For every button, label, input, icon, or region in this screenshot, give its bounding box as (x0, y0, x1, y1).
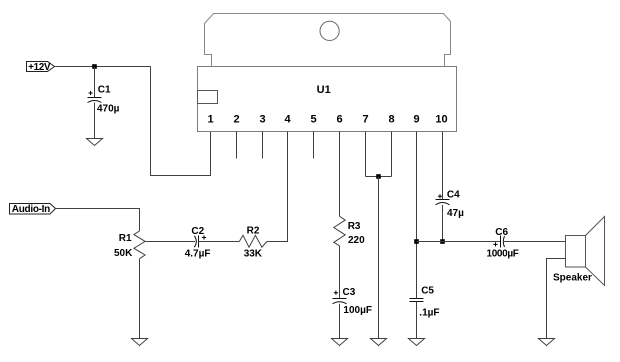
svg-text:4: 4 (284, 114, 291, 126)
wire R3 to C3 (339, 246, 341, 299)
capacitor C2 (185, 226, 211, 260)
wire speaker return (547, 259, 566, 339)
wire C1 top lead (94, 67, 96, 98)
svg-text:Speaker: Speaker (553, 272, 592, 283)
input flag Audio-In (10, 204, 56, 216)
wire pins 7/8 to ground (378, 177, 380, 339)
svg-text:U1: U1 (317, 84, 331, 96)
svg-text:10: 10 (435, 114, 447, 126)
svg-text:5: 5 (310, 114, 316, 126)
IC U1 body (198, 67, 457, 132)
resistor R2 (239, 225, 267, 259)
capacitor C3 (333, 287, 372, 316)
ground (C1) (87, 139, 103, 146)
svg-text:C1: C1 (98, 85, 111, 96)
wire C6 to speaker (504, 241, 566, 243)
svg-text:C2: C2 (191, 226, 204, 237)
svg-text:7: 7 (362, 114, 368, 126)
svg-text:R1: R1 (119, 233, 132, 244)
junction node +12V/C1 (92, 64, 97, 69)
svg-text:33K: 33K (244, 249, 263, 260)
svg-text:R2: R2 (247, 225, 260, 236)
wire +12V rail (55, 66, 151, 68)
capacitor C4 (436, 190, 465, 219)
wire pin 8 (391, 132, 393, 177)
svg-text:+12V: +12V (28, 62, 51, 73)
speaker SP1 (553, 217, 605, 286)
wire C2 to R2 (199, 241, 240, 243)
ground (pins 7/8) (371, 339, 387, 346)
junction node pins 7/8 (376, 174, 381, 179)
svg-text:R3: R3 (348, 221, 361, 232)
junction node C4/output rail (440, 239, 445, 244)
svg-text:1: 1 (207, 114, 213, 126)
wire pin 7 (365, 132, 367, 177)
wire pins 7-8 join (366, 176, 392, 178)
potentiometer R1 (114, 231, 145, 259)
svg-text:C4: C4 (447, 190, 460, 201)
svg-text:.1µF: .1µF (419, 308, 439, 319)
wire output rail (417, 241, 501, 243)
IC U1 tab (205, 14, 451, 67)
ground (R1) (132, 339, 148, 346)
svg-text:3: 3 (259, 114, 265, 126)
wire +12V rail to pin 1 (151, 67, 211, 176)
capacitor C1 (88, 85, 120, 115)
wire Audio-In to R1 (56, 209, 140, 231)
svg-text:Audio-In: Audio-In (12, 204, 50, 215)
svg-text:8: 8 (388, 114, 394, 126)
ground (speaker) (539, 339, 555, 346)
IC U1 mounting hole (320, 21, 339, 40)
wire pin 3 stub (262, 132, 264, 159)
svg-text:220: 220 (348, 235, 365, 246)
wire C3 to ground (339, 304, 341, 338)
wire pin 5 stub (313, 132, 315, 159)
svg-text:50K: 50K (114, 248, 133, 259)
svg-text:100µF: 100µF (343, 305, 372, 316)
wire R1 wiper to C2 (145, 241, 195, 243)
svg-text:47µ: 47µ (447, 208, 464, 219)
svg-text:1000µF: 1000µF (487, 249, 519, 260)
svg-text:4.7µF: 4.7µF (185, 249, 211, 260)
resistor R3 (334, 216, 365, 246)
wire pin 9 down (416, 132, 418, 299)
svg-text:C5: C5 (421, 285, 434, 296)
wire pin 4 to R2 (267, 132, 288, 242)
capacitor C5 (410, 285, 440, 318)
svg-text:6: 6 (336, 114, 342, 126)
svg-text:9: 9 (413, 114, 419, 126)
svg-text:2: 2 (233, 114, 239, 126)
capacitor C6 (487, 227, 519, 260)
wire pin 2 stub (236, 132, 238, 159)
wire pin 10 to C4 (442, 132, 444, 200)
wire C4 to output rail (442, 205, 444, 242)
svg-text:C6: C6 (495, 227, 508, 238)
wire C5 to ground (416, 302, 418, 339)
wire R1 to ground (139, 259, 141, 338)
power flag +12V (27, 62, 55, 74)
wire C1 to ground (94, 103, 96, 139)
junction node pin9/output rail (414, 239, 419, 244)
svg-text:C3: C3 (343, 287, 356, 298)
IC U1 pin-1 marker (198, 91, 218, 104)
wire pin 6 to R3 (339, 132, 341, 217)
ground (C5) (409, 339, 425, 346)
svg-text:470µ: 470µ (97, 104, 120, 115)
ground (C3) (332, 339, 348, 346)
